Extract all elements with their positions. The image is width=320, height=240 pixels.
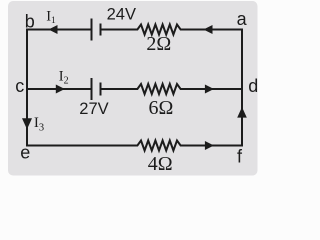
svg-text:2Ω: 2Ω	[146, 33, 171, 55]
svg-text:c: c	[15, 76, 24, 96]
wire b to battery (top left)	[27, 29, 92, 31]
arrow current toward node d (middle wire, pointing right)	[205, 85, 214, 94]
svg-text:b: b	[25, 12, 35, 32]
battery 24V	[92, 20, 101, 40]
svg-text:24V: 24V	[107, 6, 136, 24]
wire right vertical a-d-f	[241, 30, 243, 146]
resistor 6 ohm with wires (middle)	[101, 84, 243, 94]
resistor 4 ohm with bottom wire e to f	[27, 141, 242, 151]
arrow I2 current (middle wire, pointing right)	[56, 85, 65, 94]
svg-text:27V: 27V	[79, 100, 108, 118]
arrow current into node a (top wire, pointing left near a)	[203, 25, 212, 34]
wire left vertical b-c-e	[26, 30, 28, 146]
arrow I3 current (left wire, pointing down)	[22, 118, 32, 129]
arrow current up toward node d (right wire, pointing up)	[237, 107, 247, 118]
arrow current toward node f (bottom wire, pointing right)	[205, 141, 214, 150]
svg-text:6Ω: 6Ω	[149, 97, 174, 119]
svg-text:d: d	[248, 76, 258, 96]
wire c to battery (middle left)	[27, 88, 92, 90]
resistor 2 ohm with wires (top)	[101, 25, 243, 35]
battery 27V	[92, 79, 101, 99]
svg-text:e: e	[20, 142, 30, 162]
svg-text:4Ω: 4Ω	[148, 153, 173, 175]
arrow I1 current (top wire, pointing left near b)	[49, 25, 58, 34]
svg-text:a: a	[237, 9, 248, 29]
